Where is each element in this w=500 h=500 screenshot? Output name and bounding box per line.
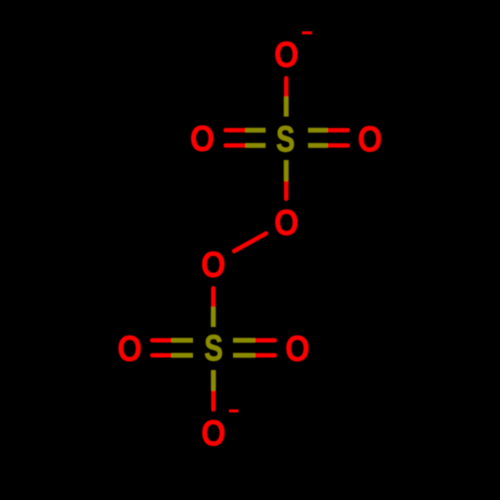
charge minus on O1 [302, 31, 312, 34]
svg-text:O: O [274, 203, 299, 243]
charge minus on O8 [229, 409, 239, 412]
svg-text:O: O [285, 329, 310, 369]
svg-text:S: S [204, 328, 223, 368]
bond S1-O4 (vertical, S to upper peroxide O) [284, 160, 288, 199]
bond O4-O5 (peroxide diagonal) [234, 233, 266, 251]
double bond S1=O2 (left, top group) [226, 130, 266, 145]
svg-text:O: O [117, 329, 142, 369]
bond O1-S1 (vertical, top) [284, 78, 288, 116]
double bond S1=O3 (right, top group) [308, 130, 348, 145]
svg-text:O: O [190, 119, 215, 159]
double bond S2=O6 (left, bottom group) [152, 340, 193, 355]
svg-text:O: O [274, 35, 299, 75]
svg-text:O: O [358, 120, 383, 160]
bond O5-S2 (vertical, lower peroxide O to bottom S) [211, 288, 215, 327]
svg-text:S: S [276, 119, 295, 159]
svg-text:O: O [201, 413, 226, 453]
svg-text:O: O [201, 245, 226, 285]
double bond S2=O7 (right, bottom group) [233, 340, 275, 355]
bond S2-O8 (vertical, bottom) [211, 370, 215, 410]
